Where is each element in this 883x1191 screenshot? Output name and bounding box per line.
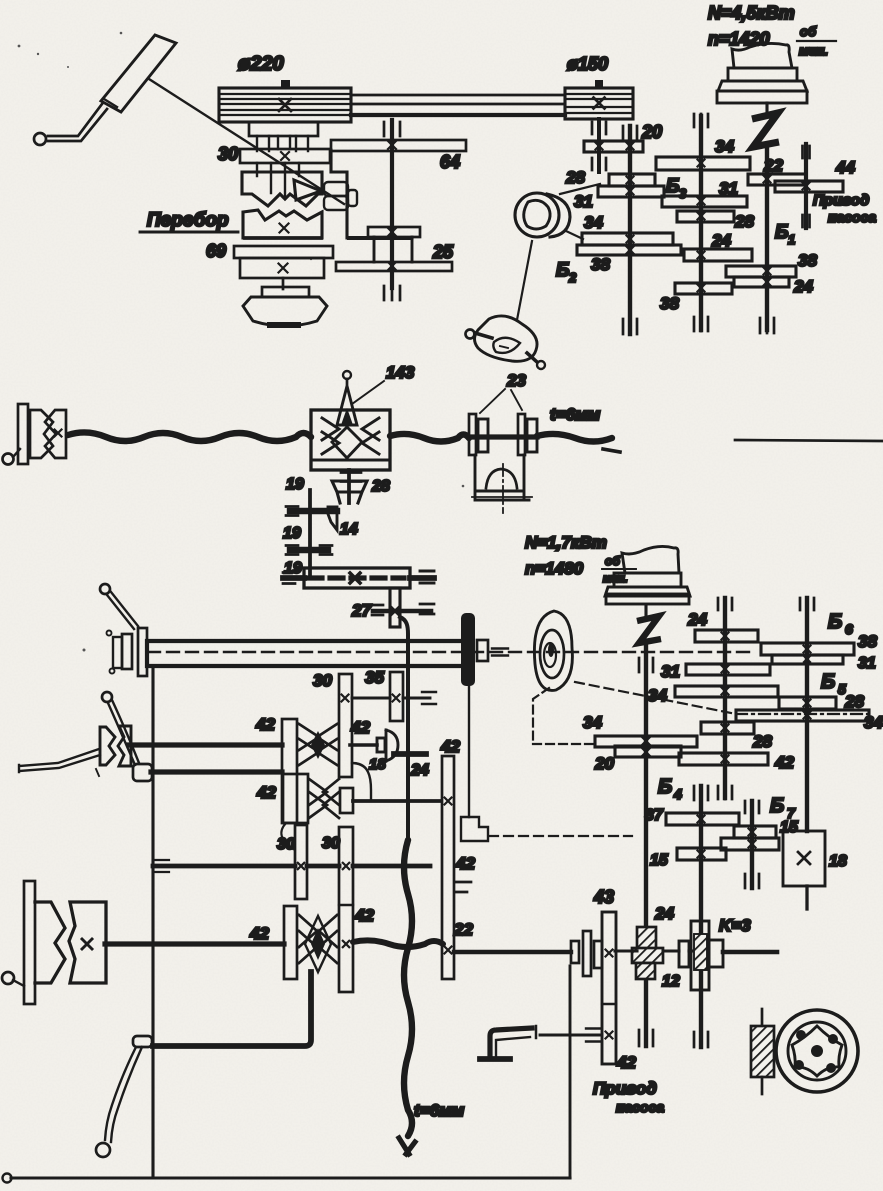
jaw clutch lower half: [243, 210, 322, 238]
gear 28 (B2): [609, 174, 655, 186]
gear 38 on motor shaft: [726, 266, 796, 277]
svg-text:38: 38: [591, 255, 610, 274]
svg-text:мин.: мин.: [799, 43, 828, 58]
pump takeoff shaft: [540, 1034, 602, 1037]
clutch lever 2: [102, 692, 112, 702]
shaft VII: [105, 941, 284, 946]
svg-text:42: 42: [350, 718, 370, 737]
svg-text:14: 14: [340, 521, 358, 538]
gear 34 (B3 top): [656, 157, 750, 170]
gear 31 (feed): [686, 664, 770, 675]
svg-text:30: 30: [313, 671, 332, 690]
gear 19b: [290, 547, 328, 553]
gear 34 (motor shaft): [595, 736, 697, 747]
svg-text:38: 38: [858, 632, 877, 651]
svg-text:30: 30: [277, 836, 295, 853]
svg-text:N=4,5кВт: N=4,5кВт: [708, 3, 795, 23]
svg-text:20: 20: [594, 754, 614, 773]
shaft III (B3): [699, 116, 703, 330]
herringbone gear 42 upper: [299, 724, 337, 765]
svg-text:34: 34: [584, 213, 603, 232]
cone pulley bell: [282, 278, 285, 289]
shaft B6/B5 (II feed): [805, 598, 809, 831]
motor M1 4.5kW: [732, 43, 792, 68]
main jaw clutch box: [35, 902, 65, 983]
gear 30 left: [295, 825, 307, 899]
svg-text:20: 20: [641, 122, 662, 142]
wire: clutch to cam lever: [517, 241, 532, 320]
gear 34 (B2): [582, 233, 673, 245]
herringbone clutch 42/42 left plate: [282, 719, 297, 823]
wire: chain run 3: [537, 434, 612, 442]
gear 31 (B2): [598, 186, 664, 197]
wire: flat belt to D150: [351, 94, 565, 97]
svg-text:34: 34: [715, 137, 734, 156]
hatched gear 24/12: [637, 927, 656, 951]
pump drive shaft: [454, 950, 571, 954]
svg-text:15: 15: [650, 852, 669, 869]
wire: chain horizontal VII: [353, 940, 443, 947]
svg-text:42: 42: [440, 737, 460, 756]
gear 24 (feed): [695, 630, 758, 642]
svg-text:Привод: Привод: [593, 1079, 657, 1098]
pulley D220: [219, 88, 351, 122]
svg-text:N=1,7кВт: N=1,7кВт: [525, 533, 607, 552]
svg-text:28: 28: [734, 212, 754, 231]
gear 69: [234, 246, 333, 258]
svg-text:34: 34: [864, 713, 883, 732]
gear disc 43/42: [602, 912, 616, 1064]
idler sprockets 23: [469, 414, 476, 455]
svg-text:3: 3: [679, 186, 687, 201]
shaft with 64/25: [390, 120, 394, 288]
svg-text:22: 22: [453, 920, 473, 939]
svg-text:25: 25: [432, 242, 454, 262]
wire: chain run 2: [390, 434, 469, 442]
svg-text:42: 42: [354, 906, 374, 925]
svg-text:Б: Б: [821, 671, 835, 693]
svg-text:Б: Б: [775, 222, 788, 243]
svg-text:n=1480: n=1480: [525, 559, 584, 578]
gear 34 (feed): [675, 686, 778, 697]
wire: chain to pump vertical: [404, 840, 412, 1136]
wire: 27 down to chain: [400, 617, 408, 840]
svg-text:28: 28: [844, 692, 864, 711]
feed box 18: [783, 831, 825, 886]
svg-text:31: 31: [661, 662, 680, 681]
svg-text:t=6мм: t=6мм: [550, 405, 601, 424]
svg-text:n=1420: n=1420: [708, 29, 770, 49]
motor shaft M2 with Z: [644, 605, 647, 616]
svg-text:19: 19: [283, 525, 301, 542]
vertical feed shaft: [308, 490, 312, 578]
feed rack 19: [304, 568, 410, 588]
svg-text:18: 18: [369, 756, 386, 773]
svg-text:24: 24: [793, 277, 813, 296]
motor M2 1.7kW: [622, 546, 679, 573]
svg-text:мин.: мин.: [603, 573, 628, 585]
gear K=3 worm: [691, 921, 709, 990]
svg-text:24: 24: [711, 231, 731, 250]
frame bottom: [569, 966, 572, 1178]
svg-text:42: 42: [256, 783, 276, 802]
gear 19a: [290, 508, 337, 514]
svg-text:34: 34: [648, 686, 667, 705]
svg-text:35: 35: [365, 668, 384, 687]
svg-text:42: 42: [774, 753, 794, 772]
gear 22 on motor shaft: [748, 174, 806, 185]
shaft B7: [750, 801, 754, 888]
gear 28 (feed): [701, 722, 754, 734]
wire: chain run 1: [68, 432, 311, 441]
svg-text:38: 38: [660, 294, 679, 313]
bevel 18/24: [350, 743, 377, 747]
svg-text:15: 15: [780, 819, 799, 836]
shaft V: [151, 769, 282, 774]
svg-text:64: 64: [440, 152, 460, 172]
svg-text:Перебор: Перебор: [147, 210, 229, 231]
gear 28 (B5): [779, 697, 836, 709]
svg-text:28: 28: [371, 478, 390, 495]
svg-text:1: 1: [788, 232, 795, 247]
oil pickup bracket: [490, 1028, 532, 1058]
spindle: [147, 641, 461, 666]
svg-text:28: 28: [565, 168, 585, 187]
svg-text:30: 30: [218, 144, 238, 164]
svg-text:Б: Б: [770, 795, 784, 817]
shaft B4 lower (III feed): [699, 786, 703, 1047]
svg-text:31: 31: [858, 655, 876, 672]
shaft under D150: [597, 119, 601, 172]
svg-text:Б: Б: [666, 176, 679, 197]
svg-text:37: 37: [645, 807, 664, 824]
gear 38 (B3 bottom): [675, 283, 732, 294]
left chain clutch: [3, 454, 14, 465]
gear hub: [368, 227, 420, 237]
svg-text:143: 143: [386, 363, 415, 382]
svg-text:31: 31: [719, 179, 738, 198]
svg-text:4: 4: [673, 786, 682, 802]
coupling: [571, 941, 579, 963]
motor shaft I with Z: [765, 103, 768, 114]
svg-text:23: 23: [506, 371, 526, 390]
jaw clutch upper half (perebor): [242, 172, 322, 206]
svg-text:Б: Б: [828, 611, 842, 633]
svg-text:K=3: K=3: [719, 916, 751, 935]
dashed linkage from clutch: [575, 682, 736, 714]
svg-text:28: 28: [752, 732, 772, 751]
gear 25: [336, 262, 452, 271]
gear 44 pump drive: [775, 181, 843, 192]
svg-text:24: 24: [410, 762, 429, 779]
clutch yoke under pulley: [249, 122, 318, 136]
svg-text:44: 44: [835, 158, 855, 177]
svg-text:43: 43: [593, 887, 614, 907]
paper specks: [18, 32, 465, 652]
svg-text:42: 42: [455, 854, 475, 873]
gerotor pump: [776, 1010, 858, 1092]
svg-text:38: 38: [798, 251, 817, 270]
gear on B7 lower: [721, 838, 779, 850]
svg-text:Привод: Привод: [813, 192, 869, 209]
svg-text:18: 18: [829, 853, 847, 870]
svg-text:насоса: насоса: [616, 1099, 664, 1115]
gear 30 on spindle shaft: [240, 149, 330, 163]
wire: shift linkage L: [153, 972, 311, 1046]
bottom hand lever: [133, 1036, 152, 1047]
svg-text:30: 30: [322, 835, 340, 852]
gear 30/42 column: [339, 827, 353, 992]
spindle nose clutch: [138, 628, 147, 676]
spindle axis dashed: [148, 651, 754, 653]
svg-text:t=6мм: t=6мм: [414, 1101, 465, 1120]
shaft IV: [129, 742, 282, 747]
herringbone clutch bottom: [284, 906, 297, 979]
gear 28 (B3): [677, 211, 734, 222]
svg-text:31: 31: [574, 192, 593, 211]
svg-text:об: об: [605, 554, 620, 568]
svg-text:19: 19: [284, 560, 302, 577]
herringbone gear 42 lower: [283, 774, 308, 823]
svg-text:12: 12: [662, 973, 680, 990]
gear 42 (feed): [679, 753, 768, 765]
pump rotor block: [761, 1009, 764, 1026]
svg-text:6: 6: [845, 621, 853, 637]
jaw clutch on shaft IV: [100, 727, 115, 765]
svg-text:24: 24: [687, 610, 707, 629]
spindle lever: [107, 592, 138, 629]
gear 20 (motor shaft): [615, 746, 681, 757]
gear 24 (B3): [684, 249, 752, 261]
gear 31 (B6): [772, 655, 843, 664]
speed lever handle: [101, 35, 176, 112]
frame vertical: [151, 667, 154, 1178]
svg-text:ø220: ø220: [238, 53, 284, 75]
bevel pair 19/28: [347, 470, 351, 503]
svg-text:34: 34: [583, 713, 602, 732]
wire: lever linkage diagonal: [149, 79, 344, 204]
pulley D150: [565, 88, 633, 119]
wire: frame line right: [735, 440, 883, 441]
svg-text:69: 69: [206, 241, 226, 261]
svg-text:27: 27: [351, 601, 372, 620]
svg-text:2: 2: [568, 270, 577, 285]
gear 24 on motor shaft: [734, 277, 789, 287]
svg-text:24: 24: [654, 904, 674, 923]
shaft B4/B5 (I feed): [723, 598, 727, 798]
wire: pump takeoff rod: [468, 686, 470, 817]
svg-text:19: 19: [286, 476, 304, 493]
gear 37: [666, 813, 739, 825]
svg-text:22: 22: [763, 156, 783, 175]
gear 15: [677, 848, 726, 860]
chain tensioner 143: [311, 410, 390, 470]
svg-text:42: 42: [255, 715, 275, 734]
gear 20: [584, 141, 643, 152]
pump drive shaft: [804, 144, 808, 228]
gear 64: [331, 140, 466, 151]
shifter bracket: [331, 150, 412, 238]
gear column 42/22 right: [442, 756, 454, 979]
spindle end pulley: [461, 613, 475, 686]
gear 34 (B5): [736, 710, 869, 721]
svg-text:Б: Б: [556, 260, 569, 281]
svg-text:об: об: [800, 24, 817, 39]
cam lever: [466, 330, 475, 339]
gear 15 (B7): [734, 826, 776, 838]
shaft VI: [153, 864, 430, 869]
svg-text:Б: Б: [658, 776, 672, 798]
gear 38 (B2): [577, 245, 681, 255]
svg-text:ø150: ø150: [567, 54, 608, 74]
gear 38 (B6): [761, 643, 854, 655]
gear 31 (B3): [662, 196, 747, 207]
svg-text:42: 42: [616, 1053, 636, 1072]
long hand rod: [19, 749, 100, 772]
friction clutch (feed): [534, 611, 572, 690]
svg-text:насоса: насоса: [828, 209, 876, 225]
svg-text:42: 42: [249, 924, 269, 943]
shaft II (B2): [628, 126, 632, 334]
friction clutch (main drive): [515, 193, 559, 237]
